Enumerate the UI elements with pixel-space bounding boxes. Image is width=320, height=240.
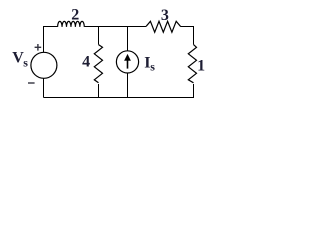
wire Is top lead [127,27,129,51]
wire inductor to R4 top junction [84,26,98,28]
svg-text:2: 2 [71,7,79,24]
resistor R3 value 3 (horizontal zigzag) [146,21,181,32]
wire top-left corner to inductor [44,26,58,28]
svg-text:4: 4 [82,53,90,70]
wire R4 top lead [98,27,100,45]
wire R3 to top-right corner [181,26,194,28]
wire bottom rail [44,97,195,99]
svg-text:s: s [23,56,28,70]
current source arrow (points up) [125,55,131,69]
resistor R1 value 1 (vertical zigzag) [188,45,196,83]
plus sign of Vs [35,44,42,51]
wire R4 junction to Is junction [99,26,128,28]
wire Is junction to R3 [128,26,147,28]
svg-text:1: 1 [197,57,205,74]
wire Vs bottom lead [43,78,45,97]
inductor L value 2 (coil) [58,21,85,27]
voltage source Vs circle [31,52,57,78]
svg-text:s: s [150,60,155,74]
wire left column top lead [43,26,45,53]
current source Is circle [116,51,138,73]
minus sign of Vs [28,82,35,84]
wire right column top lead [193,27,195,45]
resistor R4 value 4 (vertical zigzag) [94,45,102,83]
wire Is bottom lead [127,73,129,98]
svg-text:3: 3 [161,7,169,24]
wire R1 bottom lead [193,84,195,98]
wire R4 bottom lead [98,84,100,98]
